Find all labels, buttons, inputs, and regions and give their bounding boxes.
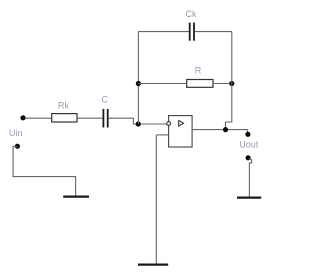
svg-text:R: R	[195, 66, 202, 76]
op-amp U1	[167, 116, 192, 147]
node feedback right	[229, 81, 234, 86]
node inverting input junction	[136, 121, 141, 126]
wire output	[192, 129, 248, 131]
terminal Uout	[239, 132, 259, 150]
terminal Uin signal	[20, 115, 25, 120]
svg-text:Uin: Uin	[9, 128, 23, 138]
wire non-inverting input	[156, 134, 168, 136]
wire feedback row left of R	[138, 83, 186, 85]
terminal Uout ground	[246, 155, 251, 160]
ground left	[63, 195, 89, 197]
resistor R	[187, 66, 213, 88]
ground right	[237, 196, 261, 198]
wire R to right junction	[213, 83, 232, 85]
wire C to inverting input	[109, 118, 167, 124]
node output junction	[223, 127, 228, 132]
wire input to Rk	[23, 117, 52, 119]
capacitor C	[102, 94, 109, 127]
wire output down to Uout terminal	[247, 130, 249, 134]
svg-text:Uout: Uout	[239, 140, 259, 150]
wire Rk to C	[77, 117, 103, 119]
wire feedback left vertical	[137, 32, 139, 125]
wire Uin ground run	[13, 146, 76, 196]
svg-text:Rk: Rk	[58, 100, 69, 110]
terminal Uin ground	[9, 128, 23, 149]
wire Uout ground hook	[249, 159, 252, 197]
resistor Rk	[52, 100, 77, 122]
node feedback left	[136, 81, 141, 86]
wire non-inverting input to ground	[155, 135, 157, 264]
ground middle	[138, 263, 168, 265]
wire right vertical with jog to output	[226, 32, 232, 130]
svg-text:C: C	[102, 94, 109, 104]
wire top left to Ck	[138, 31, 189, 33]
capacitor Ck	[186, 9, 197, 41]
svg-text:Ck: Ck	[186, 9, 197, 19]
wire Ck to top right	[195, 31, 232, 33]
